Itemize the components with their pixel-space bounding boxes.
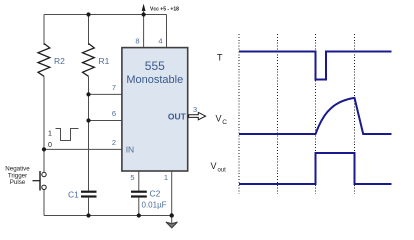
wire: pin 6 [89,120,122,122]
svg-text:4: 4 [158,37,162,46]
Vcc arrow [142,4,146,11]
junction: C1 / bottom rail [86,213,90,217]
junction: top rail / R1 [86,12,90,16]
resistor R2 [38,44,50,77]
wire: C1 to bottom rail [88,198,90,216]
svg-text:Monostable: Monostable [126,74,183,86]
wire: bottom ground rail [44,215,172,217]
svg-text:3: 3 [193,105,197,114]
resistor R1 [83,44,95,77]
wire: R1 down to C1 [88,76,90,190]
push-button switch (negative trigger) [42,172,46,176]
wire: pin 4 drop [166,15,168,48]
ground symbol [166,222,177,228]
waveform grid dotted line 3 [315,34,317,194]
junction: pin 7 / R1 [86,92,90,96]
wire: switch to bottom rail [43,190,45,216]
svg-text:1: 1 [164,173,168,182]
wire: Vcc to pin 8 [143,10,145,48]
waveform grid dotted line 1 [238,34,240,194]
IC U1: 555 monostable body [122,48,188,171]
svg-text:C1: C1 [68,189,79,199]
junction: pin 2 / R2 [42,147,46,151]
wire: R1 branch vertical above R1 [88,15,90,46]
svg-text:IN: IN [126,145,135,155]
wire: pin 7 [89,93,122,95]
svg-text:C: C [222,119,227,126]
svg-text:R1: R1 [99,56,110,66]
wire: pin 5 to C2 [138,171,140,191]
svg-text:0.01µF: 0.01µF [142,201,167,210]
trigger pulse glyph near pin 2 [56,129,79,141]
svg-text:5: 5 [130,173,134,182]
svg-text:V: V [216,114,222,124]
wire: pin 2 [44,148,122,150]
trace Vout (output waveform) [239,153,392,184]
wire: left vertical above R2 [43,15,45,46]
svg-text:8: 8 [135,37,139,46]
svg-text:OUT: OUT [168,112,187,122]
junction: pin 1 / bottom rail [170,213,174,217]
wire: pin 1 to ground [171,171,173,223]
wire: top Vcc rail [44,14,167,16]
waveform grid dotted line 2 [277,34,279,194]
svg-text:Pulse: Pulse [10,179,26,186]
junction: top rail / Vcc [142,12,146,16]
svg-text:out: out [218,168,227,174]
junction: C2 / bottom rail [137,213,141,217]
trace T (trigger waveform) [239,52,392,80]
wire: left vertical R2 to switch [43,76,45,172]
svg-text:Vcc +5 - +18: Vcc +5 - +18 [150,6,179,12]
svg-text:6: 6 [112,109,116,118]
svg-text:7: 7 [112,83,116,92]
capacitor C2 [131,191,147,193]
waveform grid dotted line 4 [354,34,356,194]
trace Vc (capacitor voltage) [239,98,392,134]
junction: pin 6 / R1 [86,118,90,122]
svg-text:R2: R2 [54,56,65,66]
svg-text:1: 1 [48,131,52,138]
svg-text:0: 0 [48,142,52,149]
svg-text:C2: C2 [150,189,161,199]
svg-text:2: 2 [112,138,116,147]
OUT arrow (pin 3) [189,112,206,119]
capacitor C1 [81,191,97,193]
wire: C2 to bottom rail [138,198,140,216]
svg-text:V: V [211,161,217,171]
svg-text:T: T [217,53,223,63]
svg-text:555: 555 [145,59,165,73]
